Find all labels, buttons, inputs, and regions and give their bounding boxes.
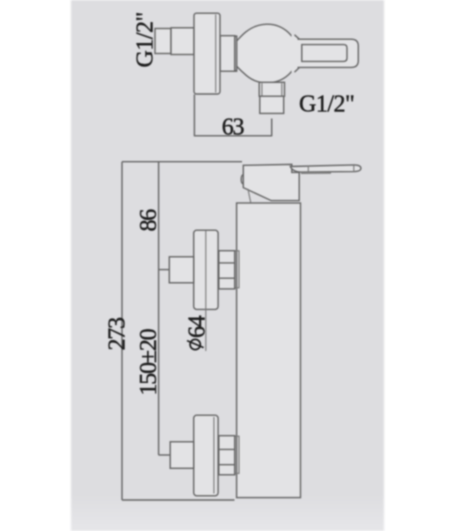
upper nut hex facets bbox=[218, 263, 235, 278]
wall flange shading edge bbox=[215, 15, 217, 93]
lever left facet tick bbox=[307, 166, 309, 172]
upper washer strip bbox=[235, 251, 239, 288]
handle lever outer outline (top view) bbox=[298, 39, 359, 67]
svg-text:150±20: 150±20 bbox=[136, 328, 162, 395]
bottom extension line bbox=[122, 499, 235, 501]
svg-text:86: 86 bbox=[136, 209, 162, 232]
lower nut hex facets bbox=[218, 449, 235, 464]
dimension 86 / 150 line bbox=[158, 162, 160, 455]
cap pivot bump bbox=[241, 175, 243, 185]
handle taper joints bbox=[295, 35, 300, 72]
handle lever inner outline bbox=[302, 45, 347, 62]
dimension 273 line bbox=[121, 162, 123, 500]
wall flange (edge-on) bbox=[194, 13, 220, 94]
svg-text:273: 273 bbox=[105, 317, 131, 351]
upper nut bbox=[219, 251, 235, 289]
lower nut bbox=[219, 436, 235, 475]
upper supply pipe bbox=[169, 257, 193, 283]
inlet pipe end segment bbox=[155, 29, 171, 54]
dimension 63 extension line left bbox=[193, 95, 195, 137]
diameter symbol circle bbox=[190, 339, 200, 349]
lever underside shadow bbox=[301, 172, 331, 174]
φ64 leader line bbox=[205, 231, 207, 352]
lower supply pipe bbox=[170, 442, 194, 469]
lower wall flange bbox=[194, 415, 218, 496]
lower flange shading edge bbox=[213, 417, 215, 494]
tick at lower flange centre bbox=[159, 454, 170, 456]
svg-text:G1/2": G1/2" bbox=[299, 92, 354, 118]
svg-text:63: 63 bbox=[222, 115, 245, 141]
diameter symbol slash bbox=[187, 341, 204, 348]
cartridge cap (side view) bbox=[243, 164, 299, 200]
outlet collar shading lines bbox=[262, 83, 282, 96]
dimension 63 line bbox=[194, 135, 271, 137]
inlet pipe coupling segment bbox=[171, 28, 194, 55]
handle lever (side view) bbox=[290, 165, 361, 172]
svg-text:64: 64 bbox=[185, 315, 211, 338]
handle root mask bbox=[292, 35, 300, 73]
body bar bbox=[237, 203, 301, 498]
tick at upper flange centre bbox=[159, 269, 170, 271]
connection nut bbox=[220, 36, 235, 71]
top extension line bbox=[122, 161, 242, 163]
outlet collar bbox=[259, 82, 284, 96]
lower washer strip bbox=[235, 436, 239, 473]
upper wall flange bbox=[194, 230, 218, 309]
cap crease bbox=[248, 189, 251, 203]
dimension 63 extension line right bbox=[271, 119, 273, 137]
lever tip facet tick bbox=[353, 165, 355, 172]
outlet pipe stub bbox=[260, 96, 284, 113]
nut washer band bbox=[235, 36, 237, 71]
valve body (top view) bbox=[237, 24, 298, 83]
